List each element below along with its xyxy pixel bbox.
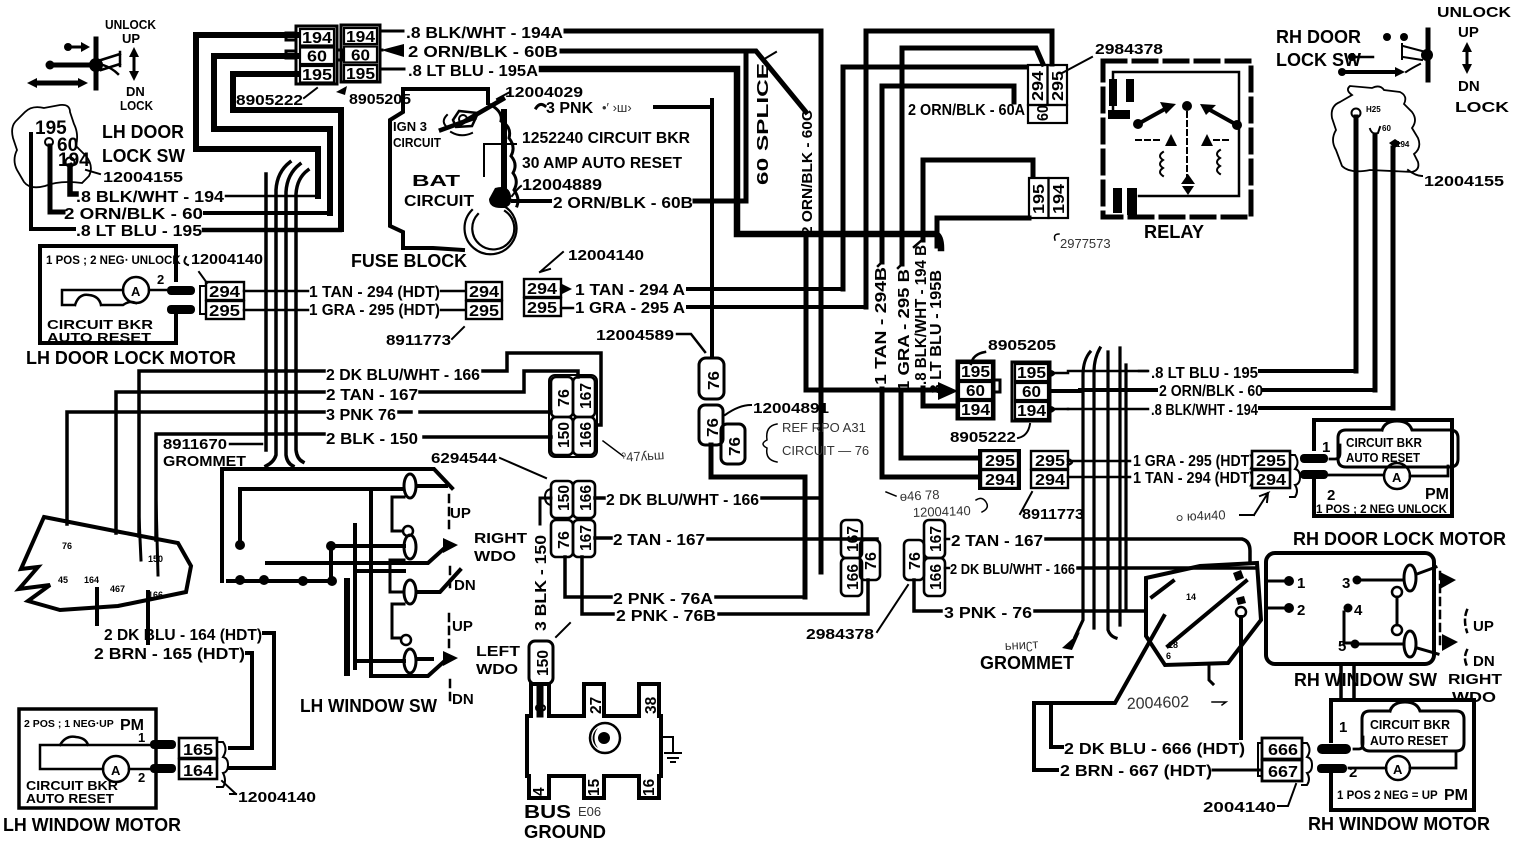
wire 295 pR to GRA label bbox=[1068, 459, 1130, 465]
svg-text:12004155: 12004155 bbox=[1424, 173, 1504, 190]
svg-text:.8 BLK/WHT - 194: .8 BLK/WHT - 194 bbox=[1151, 402, 1258, 419]
relay center contact bbox=[1181, 174, 1195, 195]
svg-text:294: 294 bbox=[1256, 472, 1286, 489]
terminal oval 3 bbox=[404, 580, 416, 604]
fuse block circuit breaker circle bbox=[465, 206, 517, 254]
svg-text:2 DK BLU/WHT - 166: 2 DK BLU/WHT - 166 bbox=[606, 492, 759, 509]
svg-text:12004155: 12004155 bbox=[103, 169, 183, 186]
relay contact arms bbox=[1133, 101, 1242, 130]
LH window motor box bbox=[19, 709, 156, 808]
relay conn box 194 (vertical) bbox=[1049, 178, 1069, 218]
small circle contact 2 bbox=[401, 635, 411, 645]
box 195 c2 bbox=[1015, 364, 1048, 382]
fuse block outline bbox=[390, 89, 488, 250]
wire 166 right long bbox=[1078, 566, 1256, 570]
svg-text:2977573: 2977573 bbox=[1060, 236, 1111, 251]
relay conn box 294 (vertical) bbox=[1028, 65, 1048, 105]
relay coil bar 1 bbox=[1109, 79, 1117, 106]
throw arm lower bbox=[371, 658, 448, 676]
svg-text:164: 164 bbox=[84, 575, 99, 585]
conn box 165 bbox=[179, 738, 217, 759]
svg-text:1: 1 bbox=[1297, 575, 1305, 592]
svg-text:2 DK BLU - 666 (HDT): 2 DK BLU - 666 (HDT) bbox=[1064, 741, 1245, 758]
svg-text:2 DK BLU/WHT - 166: 2 DK BLU/WHT - 166 bbox=[950, 561, 1075, 578]
wire riser x866 to 295A bbox=[864, 31, 869, 307]
svg-text:1 POS 2 NEG = UP: 1 POS 2 NEG = UP bbox=[1337, 790, 1438, 802]
wire 667 to conn bbox=[1213, 769, 1260, 772]
svg-text:667: 667 bbox=[1268, 764, 1298, 781]
bus ground plate bbox=[527, 684, 661, 798]
svg-text:2: 2 bbox=[1349, 764, 1357, 781]
wire 3 PNK 76 down to 76 connector bbox=[655, 100, 712, 356]
wire 150 to vertical label bbox=[540, 498, 551, 524]
cluster upper outline bbox=[549, 375, 597, 457]
terminal oval 4 bbox=[404, 649, 416, 673]
svg-text:CIRCUIT BKR: CIRCUIT BKR bbox=[1370, 717, 1451, 732]
svg-text:.8 LT BLU - 195A: .8 LT BLU - 195A bbox=[408, 63, 538, 80]
conn box 164 bbox=[179, 759, 217, 780]
LH door lock switch connector outline bbox=[12, 105, 91, 187]
wire from switch pin 60 down bbox=[50, 146, 63, 212]
svg-text:60: 60 bbox=[966, 383, 985, 400]
label CIRCUIT BKR / AUTO RESET (RH win) bbox=[1370, 717, 1451, 748]
wire 294A to riser bbox=[688, 287, 843, 291]
svg-text:2004140: 2004140 bbox=[1203, 799, 1276, 816]
svg-text:.8 BLK/WHT - 194: .8 BLK/WHT - 194 bbox=[76, 189, 224, 206]
svg-text:12004891: 12004891 bbox=[753, 400, 829, 417]
wire 194 box bottom line to riser x937 bbox=[937, 218, 1029, 246]
svg-text:CIRCUIT — 76: CIRCUIT — 76 bbox=[782, 443, 869, 458]
dot row2 junctions bbox=[235, 575, 337, 586]
motor terminal bars LH door bbox=[167, 286, 195, 314]
svg-text:76: 76 bbox=[705, 418, 722, 437]
pointer 12004889 bbox=[512, 186, 521, 196]
wire 194B stub to 194 box bbox=[923, 160, 955, 406]
label 8905222 bbox=[236, 88, 317, 109]
label 2977573 (handwritten) bbox=[1055, 234, 1111, 251]
wire riser x882 to 294B label bbox=[880, 86, 885, 262]
top jumper y30 to relay conn 295 bbox=[866, 31, 1052, 64]
RH switch terminals bbox=[1352, 105, 1410, 149]
lower vertical B bbox=[353, 525, 357, 668]
top jumper y86 to 60 box bbox=[882, 86, 1014, 102]
label DN LOCK (RH) bbox=[1455, 78, 1509, 116]
svg-text:167: 167 bbox=[578, 383, 595, 409]
svg-text:RH WINDOW SW: RH WINDOW SW bbox=[1294, 670, 1437, 690]
svg-text:LOCK: LOCK bbox=[1455, 99, 1509, 116]
wire 295 line to HDT label bbox=[244, 309, 308, 312]
wire .8 BLK/WHT - 194 to grommet bbox=[226, 195, 318, 198]
svg-text:2 ORN/BLK - 60B: 2 ORN/BLK - 60B bbox=[553, 195, 693, 212]
throw arm upper bbox=[267, 545, 448, 563]
svg-text:2 POS ; 1 NEG‧UP: 2 POS ; 1 NEG‧UP bbox=[24, 718, 114, 730]
svg-text:LOCK SW: LOCK SW bbox=[1276, 50, 1361, 70]
svg-text:1 TAN - 294B: 1 TAN - 294B bbox=[873, 267, 890, 385]
svg-text:9: 9 bbox=[533, 703, 550, 712]
svg-text:2 ORN/BLK - 60C: 2 ORN/BLK - 60C bbox=[799, 110, 816, 235]
svg-text:2 BRN - 165 (HDT): 2 BRN - 165 (HDT) bbox=[94, 646, 245, 663]
wire c2 195 right bbox=[1050, 371, 1068, 376]
svg-text:CIRCUIT: CIRCUIT bbox=[393, 135, 441, 150]
pin box 60 bbox=[300, 48, 334, 66]
svg-text:RIGHT: RIGHT bbox=[1448, 671, 1502, 688]
mid conn box 294 (pair1) bbox=[466, 282, 502, 301]
lower bracket 2 bbox=[392, 604, 404, 638]
relay conn box 295 (vertical) bbox=[1048, 65, 1068, 105]
svg-text:ө46 78: ө46 78 bbox=[899, 487, 939, 504]
lower rail 4 bbox=[355, 659, 432, 661]
motor breaker RH door bbox=[1322, 439, 1448, 504]
terminal 5 bbox=[1338, 638, 1402, 655]
label DN LOCK (LH) bbox=[120, 84, 154, 113]
wire 166 right extension to riser bbox=[762, 496, 821, 500]
svg-text:CIRCUIT: CIRCUIT bbox=[404, 193, 474, 210]
svg-text:295: 295 bbox=[985, 453, 1015, 470]
label UP / DN / RIGHT WDO (far right) bbox=[1448, 610, 1502, 706]
pin box 60 bbox=[344, 47, 377, 65]
wire 294 pR to TAN label bbox=[1068, 476, 1130, 479]
svg-text:294: 294 bbox=[1035, 472, 1065, 489]
blob pin labels bbox=[58, 541, 163, 600]
bracket contact 1 bbox=[392, 497, 404, 531]
terminal 3 bbox=[1342, 575, 1402, 592]
svg-text:12004889: 12004889 bbox=[522, 177, 602, 194]
pin box 195 bbox=[300, 66, 334, 84]
wire 166 low right bbox=[595, 496, 604, 500]
svg-text:166: 166 bbox=[578, 485, 595, 511]
wire c2 60 right bbox=[1050, 389, 1080, 393]
box 150 bbox=[551, 417, 573, 455]
svg-text:60: 60 bbox=[307, 49, 327, 66]
svg-text:150: 150 bbox=[556, 485, 573, 511]
label RH DOOR LOCK SW bbox=[1276, 27, 1361, 70]
label 6294544 bbox=[431, 450, 546, 478]
svg-text:2 DK BLU/WHT - 166: 2 DK BLU/WHT - 166 bbox=[326, 367, 480, 384]
wire 194 from connector left down to label line bbox=[196, 35, 318, 196]
switch rail top bbox=[222, 469, 452, 581]
svg-text:76: 76 bbox=[556, 531, 573, 549]
label 60 SPLICE (vertical) bbox=[755, 52, 776, 185]
svg-text:DN: DN bbox=[126, 84, 145, 99]
svg-text:194: 194 bbox=[961, 402, 990, 419]
svg-text:BAT: BAT bbox=[412, 173, 460, 190]
box 195 c1 bbox=[959, 363, 992, 381]
label UNLOCK UP (LH) bbox=[105, 17, 157, 46]
svg-text:2 TAN - 167: 2 TAN - 167 bbox=[951, 533, 1043, 550]
svg-text:294: 294 bbox=[209, 284, 240, 301]
svg-text:•′ ›ш›: •′ ›ш› bbox=[602, 100, 632, 115]
label BAT CIRCUIT bbox=[404, 173, 474, 210]
wire 60 from connector left down to label line bbox=[214, 56, 330, 213]
label 12004029 bbox=[497, 84, 583, 101]
cluster B 76 bbox=[904, 540, 924, 580]
svg-text:WDO: WDO bbox=[474, 548, 516, 565]
dot junction row1 left bbox=[235, 540, 245, 550]
relay dashed link bbox=[1136, 112, 1228, 178]
wire 150 box to bus bbox=[537, 686, 544, 714]
svg-text:PM: PM bbox=[1425, 486, 1449, 503]
conn box 76 (third) bbox=[721, 424, 745, 464]
label 2 ORN/BLK - 60B (fuse) bbox=[513, 195, 693, 212]
label 2004602 (handwritten) bbox=[1127, 694, 1226, 713]
label 8911773 (left) bbox=[386, 327, 464, 349]
svg-text:12004140: 12004140 bbox=[568, 247, 644, 264]
lower rail to oval3 bbox=[355, 570, 460, 592]
wire 195/194 connector feed from riser x923 bbox=[923, 160, 1033, 176]
svg-text:2 ORN/BLK - 60: 2 ORN/BLK - 60 bbox=[1159, 383, 1263, 400]
RH blob outline bbox=[1146, 563, 1261, 665]
svg-text:164: 164 bbox=[183, 763, 213, 780]
svg-text:2 PNK - 76B: 2 PNK - 76B bbox=[616, 608, 716, 625]
svg-text:166: 166 bbox=[148, 590, 163, 600]
label 12004140 (pair2) bbox=[540, 247, 644, 272]
svg-text:27: 27 bbox=[588, 697, 605, 714]
wire 2 PNK 76A bbox=[565, 557, 611, 597]
pointer to 150 box bbox=[556, 623, 570, 637]
blob diagonals bbox=[1152, 581, 1246, 646]
svg-text:4: 4 bbox=[1354, 602, 1363, 619]
svg-text:15: 15 bbox=[586, 778, 603, 796]
terminal 4 bbox=[1344, 602, 1364, 643]
svg-text:ьниʗт: ьниʗт bbox=[1004, 636, 1038, 653]
svg-text:12004589: 12004589 bbox=[596, 327, 674, 344]
label 12004155 (RH) bbox=[1408, 170, 1504, 190]
svg-text:DN: DN bbox=[1473, 653, 1495, 670]
relay coil squiggles bbox=[1160, 150, 1220, 176]
svg-text:6294544: 6294544 bbox=[431, 450, 498, 467]
arrowhead upper bbox=[443, 538, 458, 553]
RH switch dashed link + arrows bbox=[1417, 567, 1458, 654]
svg-text:DN: DN bbox=[452, 691, 474, 708]
conn box 667 bbox=[1262, 760, 1302, 781]
svg-text:CIRCUIT BKR: CIRCUIT BKR bbox=[1346, 435, 1423, 450]
svg-text:.8 BLK/WHT - 194A: .8 BLK/WHT - 194A bbox=[406, 25, 563, 42]
label 8905205 bbox=[336, 86, 411, 108]
svg-text:2 ORN/BLK - 60B: 2 ORN/BLK - 60B bbox=[408, 44, 558, 61]
wire 295HDT to mid box bbox=[441, 309, 464, 312]
label 12004140 (bottom left) bbox=[222, 781, 316, 806]
wire 195A down the middle bbox=[542, 69, 941, 248]
box 294 pL bbox=[981, 470, 1018, 489]
label 12004589 bbox=[596, 327, 705, 352]
motor inner box RH window bbox=[1362, 702, 1464, 751]
svg-text:6: 6 bbox=[1166, 651, 1171, 661]
blob bottom stub bbox=[1209, 665, 1213, 684]
RH door lock switch connector outline bbox=[1332, 86, 1420, 172]
wire 2 BLK - 150 left bbox=[156, 434, 324, 540]
conn box 76 (second) bbox=[699, 405, 723, 445]
svg-text:150: 150 bbox=[556, 422, 573, 448]
wire 667 label stub bbox=[1034, 768, 1057, 772]
label 8905222 (right) bbox=[950, 424, 1030, 446]
svg-text:195: 195 bbox=[1031, 184, 1048, 214]
wire blob to 164 label bbox=[95, 589, 99, 624]
svg-text:194: 194 bbox=[1017, 403, 1046, 420]
conn box 150 (bus) bbox=[529, 641, 553, 684]
mid conn box 294 (pair2) bbox=[524, 279, 561, 298]
svg-text:2: 2 bbox=[157, 272, 164, 287]
svg-text:LOCK SW: LOCK SW bbox=[102, 146, 185, 166]
svg-text:2 PNK - 76A: 2 PNK - 76A bbox=[613, 591, 713, 608]
svg-text:14: 14 bbox=[1186, 592, 1196, 602]
svg-text:8911670: 8911670 bbox=[163, 436, 227, 453]
wire 165 label to conn box bbox=[230, 653, 252, 748]
svg-text:RH DOOR: RH DOOR bbox=[1276, 27, 1361, 47]
svg-text:3 PNK 76: 3 PNK 76 bbox=[326, 407, 396, 424]
RH window motor box bbox=[1331, 700, 1474, 810]
label .8 LT BLU - 195 (right) bbox=[1139, 365, 1258, 382]
rail 2 bbox=[240, 486, 446, 489]
wire B167 to label bbox=[945, 538, 949, 541]
svg-text:AUTO RESET: AUTO RESET bbox=[1370, 733, 1448, 748]
wire 294B stub to 294 box bbox=[882, 389, 979, 477]
svg-text:A: A bbox=[1393, 762, 1403, 777]
breaker feed wire in fuse block bbox=[501, 112, 507, 205]
wire .8 LT BLU - 195 to grommet bbox=[204, 228, 340, 233]
wire riser x902 to 295B label bbox=[900, 48, 905, 264]
svg-text:A: A bbox=[111, 763, 121, 778]
svg-text:8911773: 8911773 bbox=[386, 332, 451, 349]
wire 167 low right bbox=[595, 536, 611, 540]
note REF RPO A31 CIRCUIT 76 bbox=[763, 420, 869, 462]
label 12004891 bbox=[725, 400, 829, 417]
box 60 c2 bbox=[1015, 383, 1048, 401]
label RIGHT WDO bbox=[474, 530, 527, 565]
svg-text:DN: DN bbox=[1458, 78, 1480, 95]
svg-text:195: 195 bbox=[346, 66, 375, 83]
long vertical A bbox=[369, 489, 373, 676]
pin box 194 bbox=[300, 29, 334, 47]
label UNLOCK UP (RH) bbox=[1437, 4, 1511, 41]
svg-text:ߋ ю4и40: ߋ ю4и40 bbox=[1176, 507, 1226, 524]
svg-text:UP: UP bbox=[1458, 24, 1479, 41]
svg-text:DN: DN bbox=[454, 577, 476, 594]
svg-text:AUTO RESET: AUTO RESET bbox=[1346, 450, 1420, 465]
svg-text:295: 295 bbox=[527, 300, 557, 317]
svg-text:166: 166 bbox=[928, 564, 945, 590]
svg-text:A: A bbox=[131, 284, 141, 299]
svg-text:166: 166 bbox=[578, 422, 595, 448]
box 76 low bbox=[551, 520, 573, 557]
wire .8 LT BLU 195 line bbox=[1068, 370, 1148, 373]
relay triangle contacts bbox=[1165, 134, 1213, 146]
svg-text:UNLOCK: UNLOCK bbox=[1437, 4, 1511, 21]
motor breaker symbol LH door bbox=[62, 272, 166, 305]
rotated label 1 TAN - 294B bbox=[873, 262, 890, 385]
vertical 331 bbox=[329, 546, 333, 581]
svg-text:LH WINDOW MOTOR: LH WINDOW MOTOR bbox=[3, 815, 181, 835]
label 2004140 bbox=[1203, 784, 1296, 816]
ign3 terminal glyph bbox=[441, 99, 503, 135]
label .8 LT BLU - 195A bbox=[380, 63, 538, 80]
svg-text:UP: UP bbox=[122, 31, 140, 46]
RH window switch box bbox=[1266, 553, 1434, 664]
svg-text:60: 60 bbox=[1022, 384, 1041, 401]
svg-text:295: 295 bbox=[1050, 71, 1067, 101]
svg-text:PM: PM bbox=[1444, 787, 1468, 804]
ground symbol bbox=[661, 737, 681, 762]
wire RH switch 195 down bbox=[1354, 117, 1359, 371]
svg-text:12004140: 12004140 bbox=[238, 789, 316, 806]
box 167 bbox=[573, 377, 595, 417]
wire into blob 1 bbox=[139, 517, 141, 560]
wires switch to motor bbox=[1341, 664, 1354, 700]
lower bracket contact bbox=[390, 560, 404, 592]
wire .8 BLK/WHT 194 line bbox=[1068, 408, 1148, 411]
svg-text:194: 194 bbox=[346, 29, 375, 46]
svg-text:.8 LT BLU - 195: .8 LT BLU - 195 bbox=[1151, 365, 1258, 382]
wire 166 bridge over cluster bbox=[483, 353, 601, 425]
motor terminal bars LH window bbox=[150, 740, 176, 773]
wire blob to 165 label bbox=[146, 592, 150, 643]
svg-text:195: 195 bbox=[302, 67, 332, 84]
svg-text:2 ORN/BLK - 60A: 2 ORN/BLK - 60A bbox=[908, 102, 1025, 119]
relay bottom bars bbox=[1113, 188, 1137, 215]
LH door lock motor box bbox=[40, 246, 176, 343]
svg-text:2004602: 2004602 bbox=[1127, 694, 1190, 713]
vertical to dot row1 bbox=[238, 489, 242, 545]
svg-text:165: 165 bbox=[183, 742, 213, 759]
box 295 pR bbox=[1031, 451, 1068, 470]
svg-text:1: 1 bbox=[1322, 439, 1330, 456]
svg-text:76: 76 bbox=[706, 371, 723, 390]
svg-text:1 POS ; 2 NEG UNLOCK: 1 POS ; 2 NEG UNLOCK bbox=[1316, 504, 1448, 516]
svg-text:294: 294 bbox=[1030, 71, 1047, 101]
scribble 84678 bbox=[886, 487, 940, 504]
wire B76 to label bbox=[914, 580, 941, 611]
svg-text:2 DK BLU - 164 (HDT): 2 DK BLU - 164 (HDT) bbox=[104, 627, 262, 644]
wire into blob 2 bbox=[156, 500, 158, 575]
svg-text:295: 295 bbox=[1035, 453, 1065, 470]
label 12004140 bbox=[184, 251, 263, 283]
svg-text:1 GRA - 295 B: 1 GRA - 295 B bbox=[896, 269, 913, 391]
wire c2 194 right bbox=[1050, 407, 1068, 412]
svg-text:FUSE BLOCK: FUSE BLOCK bbox=[351, 251, 467, 271]
right conn column 2 outline bbox=[1012, 362, 1050, 421]
svg-text:UP: UP bbox=[450, 505, 471, 522]
svg-text:A: A bbox=[1392, 470, 1402, 485]
terminal 2 bbox=[1268, 602, 1305, 619]
svg-text:467: 467 bbox=[110, 584, 125, 594]
conn outline RH door bbox=[1290, 455, 1300, 497]
dot junction row1 right bbox=[326, 541, 336, 551]
svg-text:2: 2 bbox=[138, 770, 145, 785]
wire 294 line to HDT label bbox=[244, 290, 308, 293]
wire from switch pin 194 down bbox=[70, 166, 76, 194]
RH switch ovals bbox=[1392, 565, 1416, 657]
svg-text:2984378: 2984378 bbox=[1095, 41, 1163, 58]
label 1 POS 2 NEG UP PM bbox=[1337, 787, 1468, 804]
box 60 c1 bbox=[959, 382, 992, 400]
svg-text:60: 60 bbox=[351, 48, 370, 65]
rotated label .8 BLK/WHT - 194 B bbox=[913, 240, 930, 385]
grommet arrow RH bbox=[1062, 632, 1080, 650]
svg-text:2 ORN/BLK - 60: 2 ORN/BLK - 60 bbox=[64, 206, 203, 223]
wire 295B stub to 295 box bbox=[901, 393, 979, 458]
conn box 295 (LH motor) bbox=[206, 301, 244, 320]
svg-text:294: 294 bbox=[469, 284, 499, 301]
wire 76A right to riser bbox=[716, 595, 805, 599]
svg-text:2: 2 bbox=[1327, 487, 1335, 504]
wire 2 ORN/BLK - 60 to grommet bbox=[205, 211, 330, 215]
wire 2 PNK 76B bbox=[582, 557, 613, 614]
wire 666 label stub bbox=[1051, 703, 1062, 747]
wire from switch pin 195 down bbox=[31, 134, 74, 229]
svg-text:12004029: 12004029 bbox=[505, 84, 583, 101]
svg-text:2984378: 2984378 bbox=[806, 626, 874, 643]
wire 194A to center bbox=[566, 31, 821, 572]
svg-text:60: 60 bbox=[1035, 105, 1052, 121]
